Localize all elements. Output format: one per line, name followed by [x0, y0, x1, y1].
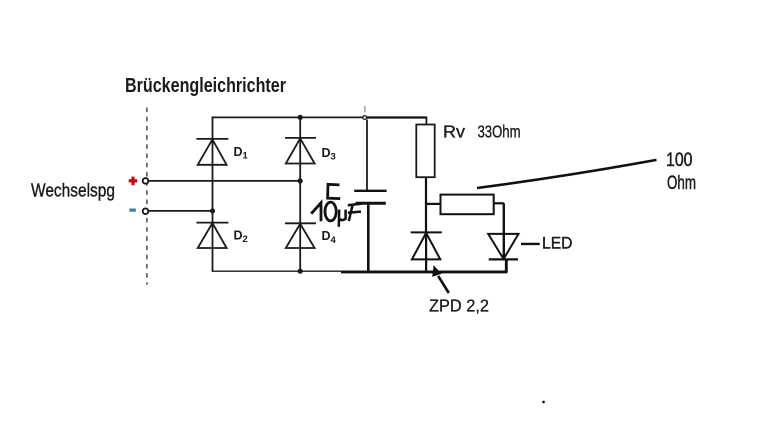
- plus terminal mark: [129, 177, 138, 186]
- LED label dash: [521, 243, 540, 245]
- diode D4: [285, 223, 316, 248]
- stray ink dot: [542, 401, 545, 404]
- handwritten label 10uF: [311, 202, 362, 227]
- diode D2: [196, 223, 228, 248]
- wire top rail retrace right segment: [367, 116, 426, 118]
- capacitor upper lead: [366, 120, 368, 191]
- svg-text:ZPD 2,2: ZPD 2,2: [429, 296, 489, 316]
- LED bottom stub: [505, 260, 508, 273]
- capacitor lower lead: [367, 204, 370, 273]
- zener lower lead: [425, 232, 427, 272]
- wire right column: [299, 117, 301, 271]
- svg-text:D4: D4: [322, 229, 337, 246]
- dashed boundary line: [146, 108, 148, 285]
- stub to resistor 100: [426, 203, 441, 205]
- minus terminal mark: [129, 209, 136, 212]
- wire top rail: [212, 116, 427, 118]
- svg-text:Rv: Rv: [443, 122, 465, 142]
- junction dot top right column: [298, 115, 303, 120]
- wire down to LED: [503, 203, 505, 259]
- capacitor C bottom plate: [356, 202, 386, 205]
- wire minus horizontal: [149, 210, 213, 212]
- svg-text:100: 100: [666, 150, 693, 171]
- minus terminal circle: [143, 208, 149, 214]
- svg-text:33Ohm: 33Ohm: [478, 122, 521, 142]
- svg-text:D2: D2: [234, 229, 248, 246]
- svg-text:Brückengleichrichter: Brückengleichrichter: [125, 74, 286, 97]
- diode D3: [285, 138, 316, 164]
- svg-text:D1: D1: [234, 145, 249, 162]
- LED triangle: [488, 234, 518, 259]
- resistor Rv top lead: [425, 117, 427, 125]
- resistor 100 Ohm body: [441, 195, 494, 215]
- wire bottom rail thin: [212, 270, 345, 272]
- svg-text:D3: D3: [322, 146, 336, 163]
- zener diode ZPD triangle: [412, 233, 440, 260]
- zener diode ZPD bar: [411, 231, 442, 233]
- svg-text:Ohm: Ohm: [667, 173, 696, 194]
- node circle on top rail: [363, 116, 367, 120]
- resistor Rv body: [416, 125, 434, 178]
- LED cathode bar: [489, 258, 518, 260]
- capacitor C top plate: [354, 190, 387, 192]
- plus terminal circle: [143, 178, 149, 184]
- wire bottom rail thick: [341, 270, 507, 273]
- wire Rv to ZPD: [425, 177, 427, 232]
- junction dot bottom right column: [298, 269, 303, 274]
- svg-text:Wechselspg: Wechselspg: [31, 180, 115, 201]
- junction dot middle right column: [298, 178, 303, 183]
- gray dash above node: [364, 106, 366, 113]
- pointer line to 100 Ohm resistor: [477, 160, 657, 188]
- diode D1: [196, 139, 228, 165]
- junction dot minus left column: [210, 208, 215, 213]
- ZPD pointer arrow: [432, 265, 449, 293]
- wire left column: [212, 117, 214, 272]
- wire plus horizontal: [149, 180, 300, 182]
- svg-text:LED: LED: [542, 233, 573, 252]
- resistor 100 right stub: [494, 202, 504, 204]
- handwritten label C: [328, 184, 341, 198]
